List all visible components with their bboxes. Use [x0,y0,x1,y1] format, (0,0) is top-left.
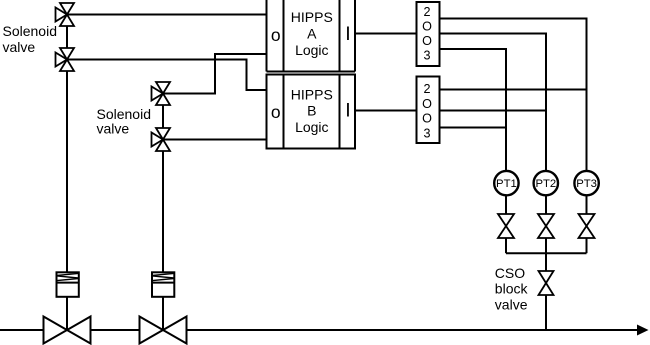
svg-text:3: 3 [423,126,430,140]
wire HIPPS A output to voter 1 [355,33,417,35]
svg-text:I: I [345,23,350,45]
svg-text:Logic: Logic [295,42,328,58]
main pipeline arrowhead [637,325,649,336]
wire voter 1 bottom output to PT1 [440,49,507,171]
solenoid valve SV4 (3-way symbol) [152,128,171,151]
svg-text:3: 3 [423,49,430,63]
pressure transmitter PT2 [534,171,558,195]
wire isolation valve 3 to header [586,238,588,253]
actuator 1 (spring-return) [57,272,79,297]
svg-text:block: block [495,281,529,297]
wire PT1 to isolation valve 1 [505,195,507,214]
pressure transmitter PT1 [494,171,518,195]
wire SV3 to HIPPS A input (stepped) [163,54,267,94]
svg-text:o: o [271,102,281,122]
HIPPS A text [291,9,333,58]
wire SV1 to HIPPS A input [67,14,267,16]
svg-text:PT2: PT2 [535,178,556,190]
svg-text:I: I [345,100,350,122]
voter box 2OO3 lower [417,77,440,144]
svg-text:A: A [307,25,317,41]
wire actuator 2 to gate valve 2 [162,297,164,330]
wire PT2 to isolation valve 2 [545,195,547,214]
svg-text:HIPPS: HIPPS [291,9,333,25]
svg-text:2: 2 [423,82,430,96]
svg-text:valve: valve [97,120,130,136]
isolation valve under PT2 [538,214,554,238]
svg-text:valve: valve [3,39,36,55]
svg-text:O: O [422,112,432,126]
wire actuator 1 stem upper [66,270,68,272]
wire SV4 to HIPPS B input [163,139,267,141]
wire SV3 to SV4 [162,105,164,128]
pressure transmitter PT3 [574,171,598,195]
wire voter 1 top output to PT3 [440,19,587,171]
wire voter 1 middle output to PT2 [440,34,547,171]
wire voter 2 middle output to PT2 branch [440,110,547,112]
svg-text:O: O [422,34,432,48]
svg-text:valve: valve [495,296,528,312]
gate valve 1 (ESD) [44,317,91,344]
HIPPS A logic box [267,0,356,72]
svg-text:O: O [422,20,432,34]
label Solenoid valve (lower) [97,106,152,137]
solenoid valve SV3 (3-way symbol) [152,82,171,105]
isolation valve under PT1 [498,214,514,238]
gate valve 2 (ESD) [140,317,187,344]
wire HIPPS B output to voter 2 [355,110,417,112]
header wire joining PT legs [506,252,587,254]
svg-text:PT3: PT3 [576,178,597,190]
label CSO block valve [495,265,529,312]
CSO block valve symbol [539,271,554,295]
wire CSO valve to main line [545,295,547,330]
svg-text:O: O [422,97,432,111]
wire isolation valve 1 to header [505,238,507,253]
svg-text:PT1: PT1 [496,178,517,190]
voter 1 text 2OO3 [422,5,432,63]
wire SV4 down to actuator 2 [162,151,164,272]
HIPPS B text [291,86,333,135]
wire voter 2 bottom output to PT1 branch [440,127,507,129]
solenoid valve SV2 (3-way symbol) [56,48,75,71]
main pipeline [0,329,640,331]
actuator 2 (spring-return) [152,272,174,297]
voter 2 text 2OO3 [422,82,432,140]
voter box 2OO3 upper [417,2,440,66]
svg-text:HIPPS: HIPPS [291,86,333,102]
wire header to CSO valve [545,253,547,271]
wire SV2 to HIPPS B input (stepped) [67,60,267,91]
svg-text:Solenoid: Solenoid [3,23,58,39]
wire SV2 down to actuator 1 [66,71,68,272]
wire actuator 1 to gate valve 1 [66,297,68,330]
svg-text:CSO: CSO [495,265,525,281]
svg-text:2: 2 [423,5,430,19]
svg-text:Logic: Logic [295,119,328,135]
solenoid valve SV1 (3-way symbol) [56,3,75,26]
label Solenoid valve (upper) [3,23,58,55]
wire isolation valve 2 to header [545,238,547,253]
svg-text:Solenoid: Solenoid [97,106,152,122]
svg-text:B: B [307,103,316,119]
wire voter 2 top output to PT3 branch [440,89,587,91]
isolation valve under PT3 [579,214,595,238]
HIPPS B logic box [267,75,356,149]
wire PT3 to isolation valve 3 [586,195,588,214]
wire SV1 to SV2 [66,26,68,48]
svg-text:o: o [271,25,281,45]
